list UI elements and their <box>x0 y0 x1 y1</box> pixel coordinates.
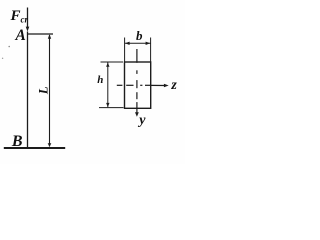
b dimension line <box>125 42 151 44</box>
label L (rotated) <box>38 87 51 95</box>
b dimension left arrowhead <box>125 42 130 45</box>
speck artifact 2 <box>2 58 3 59</box>
label y <box>139 114 145 128</box>
cross-section rectangle <box>125 62 151 108</box>
L dimension top arrowhead <box>48 34 51 39</box>
h extension line top <box>101 61 124 63</box>
force F_cr arrowhead <box>26 27 30 32</box>
label F_cr <box>11 9 29 24</box>
h extension line bottom <box>99 107 124 109</box>
b dimension right arrowhead <box>146 42 151 45</box>
column AB <box>27 32 29 148</box>
label B <box>12 134 23 150</box>
label b <box>136 29 143 42</box>
extension line at A <box>28 33 53 35</box>
force F_cr arrow line <box>27 8 29 28</box>
b extension line right <box>150 38 152 63</box>
label A <box>16 28 26 44</box>
label h <box>97 75 103 86</box>
L dimension bottom arrowhead <box>48 143 52 147</box>
h dimension line <box>107 63 109 108</box>
z axis arrowhead <box>164 84 169 87</box>
y axis <box>136 102 138 113</box>
h dimension top arrowhead <box>106 63 109 67</box>
h dimension bottom arrowhead <box>106 103 109 107</box>
horizontal centerline (z axis centerline) <box>117 84 123 86</box>
label z <box>171 79 176 93</box>
L dimension line <box>49 35 51 147</box>
y axis arrowhead <box>135 112 139 117</box>
z axis <box>151 84 165 86</box>
speck artifact 1 <box>8 46 10 48</box>
ground line at B <box>4 147 65 149</box>
b extension line left <box>124 38 126 63</box>
vertical centerline (y axis centerline) <box>136 49 138 63</box>
